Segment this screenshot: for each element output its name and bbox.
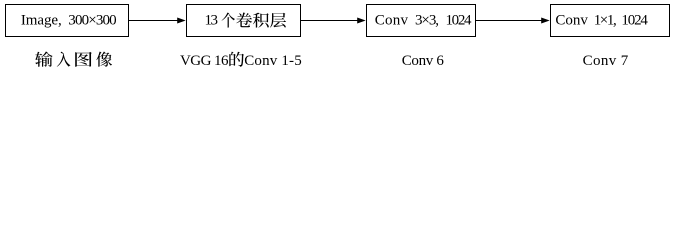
svg-text:Conv 6: Conv 6 bbox=[402, 53, 445, 69]
CJK glyph 层 bbox=[270, 13, 286, 28]
conv7 box bbox=[551, 5, 670, 37]
conv layers box bbox=[187, 5, 301, 37]
label1 glyph 图 bbox=[75, 52, 92, 67]
svg-text:300×300: 300×300 bbox=[68, 13, 116, 29]
svg-text:13: 13 bbox=[205, 13, 219, 29]
arrow 1 line bbox=[129, 20, 179, 22]
CJK glyph 卷 bbox=[236, 13, 252, 28]
label1 glyph 像 bbox=[96, 52, 112, 67]
svg-text:Image,: Image, bbox=[21, 13, 62, 29]
input image box bbox=[6, 5, 129, 37]
svg-text:Conv 7: Conv 7 bbox=[583, 53, 629, 69]
svg-text:Conv: Conv bbox=[555, 13, 588, 29]
arrow 3 line bbox=[476, 20, 543, 22]
arrow 2 line bbox=[301, 20, 359, 22]
label2 glyph 的 bbox=[229, 52, 244, 67]
svg-text:VGG 16: VGG 16 bbox=[180, 53, 229, 69]
conv6 box bbox=[367, 5, 476, 37]
arrow 1 head bbox=[177, 18, 186, 24]
svg-text:3×3,: 3×3, bbox=[415, 13, 439, 29]
svg-text:1024: 1024 bbox=[446, 13, 473, 29]
arrow 3 head bbox=[541, 18, 550, 24]
label1 glyph 输 bbox=[35, 52, 53, 67]
CJK glyph 积 bbox=[253, 13, 269, 28]
CJK glyph 个 bbox=[222, 13, 235, 28]
svg-text:Conv: Conv bbox=[375, 13, 409, 29]
svg-text:1024: 1024 bbox=[621, 13, 648, 29]
arrow 2 head bbox=[357, 18, 366, 24]
svg-text:1×1,: 1×1, bbox=[594, 13, 617, 29]
svg-text:Conv 1-5: Conv 1-5 bbox=[244, 53, 302, 69]
label1 glyph 入 bbox=[57, 52, 71, 67]
